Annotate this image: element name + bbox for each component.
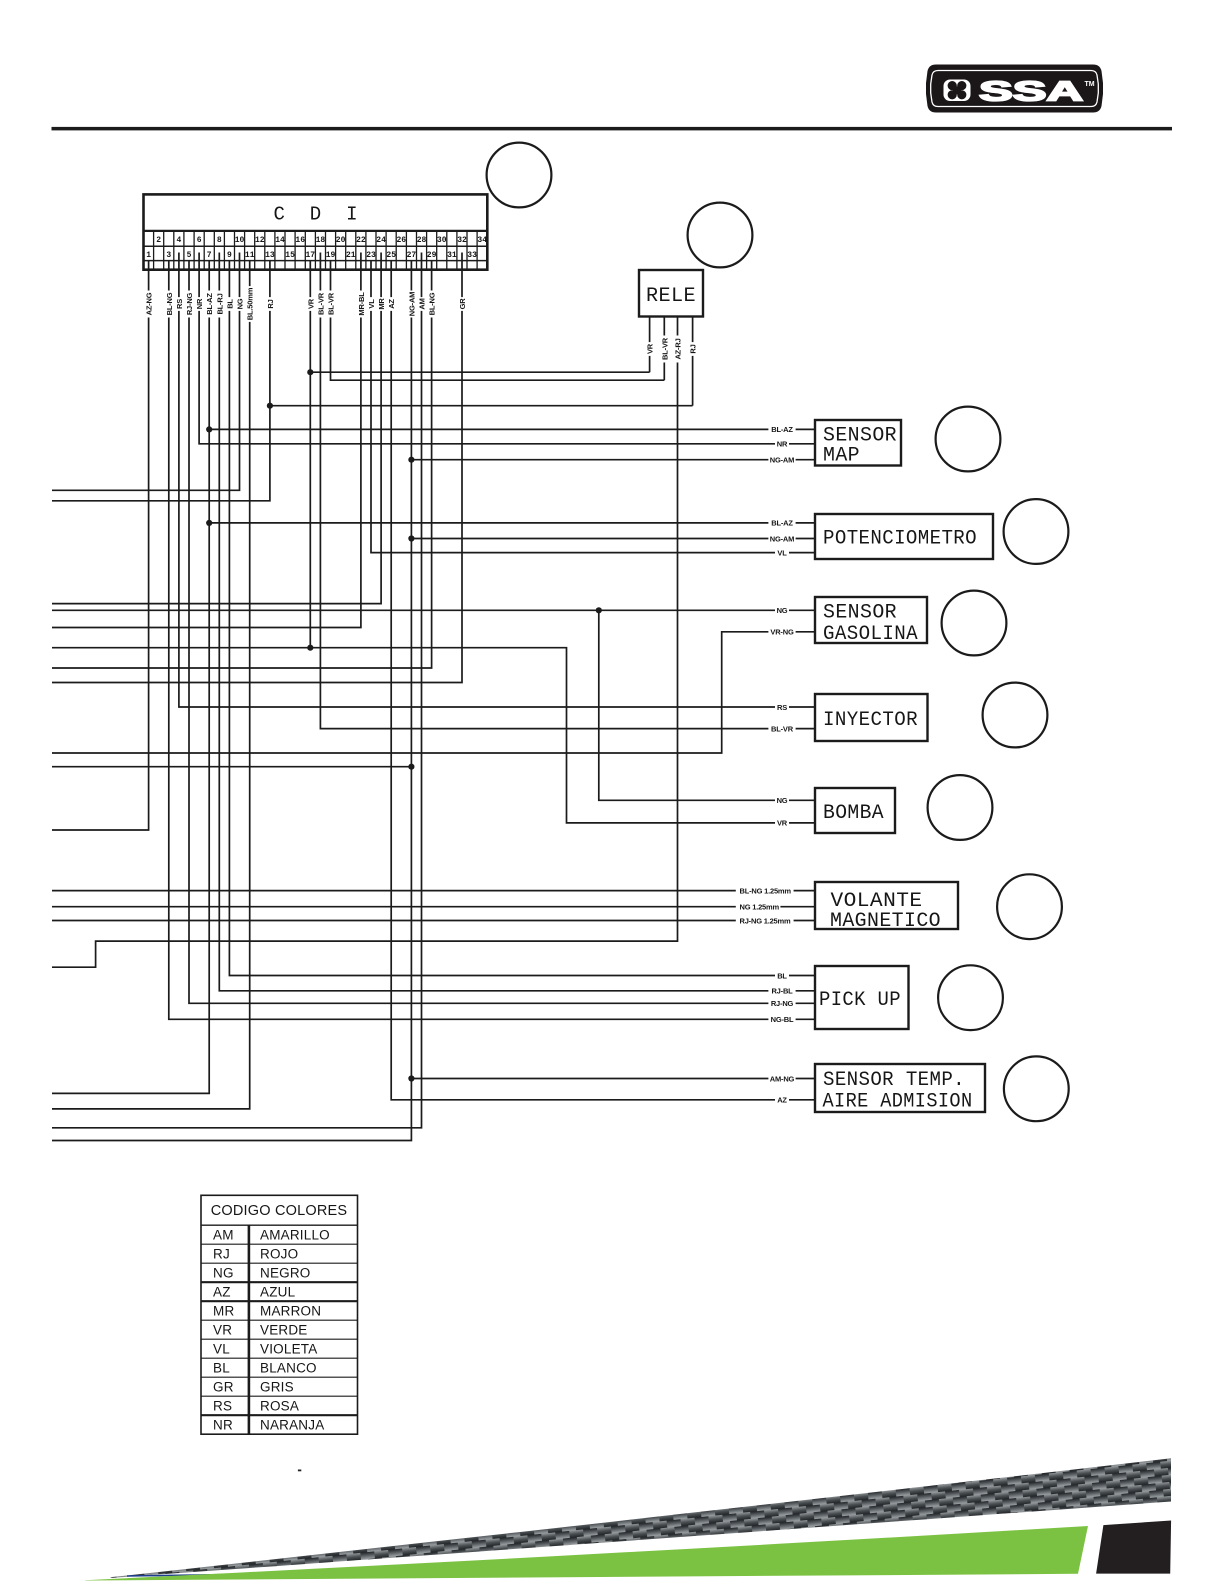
wire pin 18 BL-VR to INYECTOR BL-VR: [320, 253, 815, 729]
svg-text:16: 16: [295, 236, 305, 245]
svg-text:MAGNETICO: MAGNETICO: [830, 910, 941, 933]
svg-text:ROSA: ROSA: [260, 1398, 299, 1413]
wiring harness: [52, 253, 815, 1141]
wire pin 8 RJ-BL to PICK UP RJ-BL: [219, 253, 815, 991]
wire NG branch to BOMBA NG: [599, 610, 815, 800]
wire VR-NG to SENSOR GASOLINA: [52, 632, 815, 753]
wire branch pin 27 to POTENCIOMETRO NG-AM: [411, 538, 815, 540]
wire pin 27 NG-AM vertical to left harness: [52, 261, 411, 1141]
svg-text:4: 4: [176, 236, 181, 245]
svg-text:30: 30: [437, 236, 447, 245]
label AM-NG: [768, 1074, 795, 1084]
svg-text:NG-AM: NG-AM: [770, 534, 794, 543]
green wedge: [85, 1526, 1088, 1581]
label NG 1.25mm: [736, 902, 781, 912]
label NR pin 6: [195, 297, 205, 311]
svg-text:25: 25: [386, 251, 396, 260]
sensor box POTENCIOMETRO: [815, 514, 993, 559]
wire pin 23 VL to POTENCIOMETRO VL: [371, 261, 815, 553]
svg-text:MR: MR: [377, 298, 386, 310]
pump box BOMBA: [815, 788, 895, 833]
svg-text:NEGRO: NEGRO: [260, 1265, 311, 1280]
label NG: [775, 796, 789, 806]
label RJ-NG 1.25mm: [736, 916, 794, 926]
svg-text:NG: NG: [777, 606, 788, 615]
label BL-AZ: [768, 425, 795, 435]
label AM pin 28: [417, 297, 427, 311]
svg-text:5: 5: [187, 251, 192, 260]
svg-text:RJ-NG: RJ-NG: [771, 999, 794, 1008]
label NG: [775, 606, 789, 616]
svg-text:PICK UP: PICK UP: [819, 989, 901, 1012]
svg-text:23: 23: [366, 251, 376, 260]
svg-text:RJ: RJ: [689, 344, 698, 353]
svg-text:BL-VR: BL-VR: [660, 337, 669, 360]
wire RELE BL-VR drop: [663, 317, 665, 381]
svg-text:20: 20: [336, 236, 346, 245]
svg-text:RJ: RJ: [213, 1246, 230, 1261]
relay RELE: [639, 270, 703, 317]
sensor box SENSOR TEMP. AIRE ADMISION: [815, 1064, 985, 1114]
label RJ-NG pin 5: [184, 291, 194, 318]
wire pin 22 MR-BL to left harness: [52, 253, 361, 628]
svg-text:NR: NR: [213, 1417, 233, 1432]
svg-text:CODIGO COLORES: CODIGO COLORES: [211, 1203, 348, 1219]
label RJ RELE: [688, 342, 698, 356]
CDI cell dividers: [154, 231, 478, 270]
svg-text:NG: NG: [236, 298, 245, 309]
CDI connector U1: [144, 194, 488, 269]
svg-text:NARANJA: NARANJA: [260, 1417, 324, 1432]
sensor box SENSOR MAP: [815, 420, 901, 468]
svg-text:NG: NG: [777, 796, 788, 805]
svg-text:BL-NG: BL-NG: [165, 292, 174, 315]
sensor box PICK UP: [815, 966, 909, 1029]
label VR: [775, 818, 789, 828]
svg-text:AM-NG: AM-NG: [770, 1074, 795, 1083]
label NG-BL: [768, 1015, 795, 1025]
junction pin17/VR net: [307, 645, 313, 651]
OSSA logo: [926, 65, 1103, 113]
wire RELE VR drop: [649, 317, 651, 373]
wire pin 25 AZ to SENSOR TEMP AZ: [391, 261, 815, 1100]
svg-text:24: 24: [376, 236, 386, 245]
label BL-AZ pin 7: [205, 291, 215, 318]
label MR-BL pin 22: [356, 291, 366, 318]
blue accent line: [127, 1573, 269, 1577]
carbon fibre wedge: [110, 1458, 1171, 1578]
label BL-NG pin 29: [427, 291, 437, 318]
svg-text:BLANCO: BLANCO: [260, 1360, 317, 1375]
svg-text:MR: MR: [213, 1303, 234, 1318]
junction pin27/POT: [408, 535, 414, 541]
svg-text:31: 31: [447, 251, 457, 260]
svg-text:32: 32: [457, 236, 467, 245]
wire branch pin 27 to SENSOR TEMP AM-NG: [411, 1078, 815, 1080]
label BL-VR: [768, 724, 795, 734]
label BL.50mm pin 11: [245, 286, 255, 322]
label BL-VR pin 19: [326, 291, 336, 318]
callout circle BOMBA: [928, 775, 993, 840]
svg-text:RJ: RJ: [266, 299, 275, 308]
black parallelogram: [1096, 1521, 1171, 1574]
svg-text:VR: VR: [777, 819, 788, 828]
svg-text:BL-NG: BL-NG: [428, 292, 437, 315]
svg-text:AMARILLO: AMARILLO: [260, 1227, 330, 1242]
svg-text:TM: TM: [1085, 81, 1095, 88]
callout circle SENSOR GASOLINA: [942, 591, 1007, 656]
horizontal rule under header: [52, 127, 1173, 130]
svg-text:NG-BL: NG-BL: [771, 1015, 794, 1024]
label BL-AZ: [768, 518, 795, 528]
svg-text:GR: GR: [458, 298, 467, 310]
CDI odd pin numbers: [146, 251, 477, 260]
svg-text:BL-AZ: BL-AZ: [771, 425, 793, 434]
wire pin 28 AM to left harness: [52, 253, 422, 1128]
label RJ pin 13: [265, 297, 275, 311]
label NG-AM: [768, 455, 795, 465]
svg-text:1: 1: [146, 251, 151, 260]
wire VR net to BOMBA VR: [52, 648, 815, 823]
wire pin 10 NG to left harness: [52, 253, 240, 491]
label VR RELE: [645, 342, 655, 356]
label BL: [775, 971, 789, 981]
wire pin 29 BL-NG to left harness: [52, 261, 432, 668]
svg-text:SSA: SSA: [979, 76, 1083, 107]
wire pin 11 BL.50mm to left harness: [52, 261, 250, 1109]
svg-text:AZ-RJ: AZ-RJ: [674, 338, 683, 359]
svg-text:11: 11: [245, 251, 255, 260]
svg-text:GRIS: GRIS: [260, 1379, 294, 1394]
wire branch pin 7 to POTENCIOMETRO BL-AZ: [209, 522, 815, 524]
component wire colour labels: [768, 425, 795, 1105]
svg-text:3: 3: [166, 251, 171, 260]
wire pin 24 MR to left harness: [52, 253, 381, 604]
svg-text:POTENCIOMETRO: POTENCIOMETRO: [823, 528, 977, 551]
svg-text:12: 12: [255, 236, 265, 245]
label BL-VR RELE: [660, 336, 670, 363]
svg-text:7: 7: [207, 251, 212, 260]
svg-text:NR: NR: [777, 440, 788, 449]
svg-text:BL-NG 1.25mm: BL-NG 1.25mm: [740, 886, 792, 895]
actuator box INYECTOR: [815, 694, 928, 741]
sensor box SENSOR GASOLINA: [815, 597, 927, 646]
label RS: [775, 702, 789, 712]
label BL-RJ pin 8: [215, 291, 225, 318]
svg-text:22: 22: [356, 236, 366, 245]
svg-text:MAP: MAP: [823, 445, 860, 468]
svg-text:NR: NR: [195, 298, 204, 309]
callout circle POTENCIOMETRO: [1004, 499, 1069, 564]
svg-text:SENSOR TEMP.: SENSOR TEMP.: [823, 1069, 965, 1092]
callout circle INYECTOR: [983, 683, 1048, 748]
callout circle near RELE: [688, 203, 753, 268]
svg-text:VERDE: VERDE: [260, 1322, 308, 1337]
svg-text:AZ-NG: AZ-NG: [145, 292, 154, 315]
junction pin7/POT: [206, 520, 212, 526]
wire branch pin 27 to SENSOR MAP NG-AM: [411, 459, 815, 461]
svg-text:RJ-NG 1.25mm: RJ-NG 1.25mm: [740, 916, 791, 925]
label BL-NG pin 3: [164, 291, 174, 318]
svg-text:VIOLETA: VIOLETA: [260, 1341, 317, 1356]
wire VOLANTE NG 1.25mm: [52, 906, 815, 908]
junction pin27/SENSOR TEMP: [408, 1075, 414, 1081]
svg-text:NG 1.25mm: NG 1.25mm: [740, 903, 780, 912]
label VL pin 23: [366, 297, 376, 311]
svg-text:VR: VR: [213, 1322, 232, 1337]
wire RELE RJ drop: [692, 317, 694, 406]
label BL-VR pin 18: [316, 291, 326, 318]
svg-text:BL-VR: BL-VR: [771, 724, 794, 733]
svg-text:18: 18: [316, 236, 326, 245]
junction dots: [206, 369, 602, 1082]
svg-text:RJ-NG: RJ-NG: [185, 292, 194, 315]
label VR-NG: [768, 627, 795, 637]
generator box VOLANTE MAGNETICO: [815, 882, 958, 933]
svg-text:BOMBA: BOMBA: [823, 802, 884, 825]
wire pin 3 BL-NG to PICK UP NG-BL: [169, 261, 815, 1019]
svg-text:INYECTOR: INYECTOR: [823, 709, 918, 732]
svg-text:RELE: RELE: [646, 285, 696, 308]
junction pin7/MAP: [206, 426, 212, 432]
svg-text:33: 33: [467, 251, 477, 260]
CDI wire colour labels: [144, 286, 467, 322]
label VL: [775, 548, 789, 558]
callout circle SENSOR MAP: [936, 407, 1001, 472]
label RS pin 4: [174, 297, 184, 311]
wire pin 13 RJ vertical to left harness: [52, 261, 270, 501]
svg-text:NG: NG: [213, 1265, 234, 1280]
svg-text:BL-VR: BL-VR: [327, 292, 336, 315]
svg-text:10: 10: [235, 236, 245, 245]
svg-text:29: 29: [427, 251, 437, 260]
label NG-AM pin 27: [407, 291, 417, 318]
label GR pin 32: [457, 297, 467, 311]
svg-text:AZ: AZ: [387, 299, 396, 309]
RELE wire colour labels: [645, 336, 698, 363]
svg-text:GR: GR: [213, 1379, 234, 1394]
svg-text:VR-NG: VR-NG: [770, 628, 794, 637]
wire RELE AZ-RJ to left harness: [52, 317, 678, 968]
svg-text:34: 34: [477, 236, 487, 245]
wire NG net to SENSOR GASOLINA NG: [52, 609, 815, 611]
wire NG-AM left harness line: [52, 766, 411, 768]
svg-text:17: 17: [305, 251, 315, 260]
svg-text:BL: BL: [777, 971, 787, 980]
label AZ: [775, 1095, 789, 1105]
junction pin27/harness: [408, 764, 414, 770]
svg-text:BL: BL: [225, 299, 234, 309]
junction pin17/RELE VR: [307, 369, 313, 375]
svg-text:MR-BL: MR-BL: [357, 292, 366, 316]
svg-text:RJ-BL: RJ-BL: [771, 987, 793, 996]
callout circle VOLANTE MAGNETICO: [997, 874, 1062, 939]
svg-text:BL-AZ: BL-AZ: [205, 293, 214, 315]
svg-text:GASOLINA: GASOLINA: [823, 623, 918, 646]
svg-text:13: 13: [265, 251, 275, 260]
wire pin 9 BL to PICK UP BL: [229, 261, 815, 976]
wire pin 6 NR to SENSOR MAP NR: [199, 253, 815, 444]
svg-text:VL: VL: [213, 1341, 230, 1356]
junction pin13/RELE RJ: [267, 403, 273, 409]
svg-text:6: 6: [197, 236, 202, 245]
svg-text:RS: RS: [777, 703, 787, 712]
wire pin 7 BL-AZ vertical to left harness: [52, 261, 209, 1093]
svg-text:MARRON: MARRON: [260, 1303, 321, 1318]
label NG pin 10: [235, 297, 245, 311]
svg-text:RS: RS: [175, 299, 184, 309]
wire VOLANTE BL-NG 1.25mm: [52, 890, 815, 892]
svg-text:BL-VR: BL-VR: [316, 292, 325, 315]
svg-text:AZUL: AZUL: [260, 1284, 296, 1299]
svg-text:19: 19: [326, 251, 336, 260]
label AZ-RJ RELE: [673, 336, 683, 363]
wire pin 17 VR vertical: [309, 261, 311, 648]
svg-text:26: 26: [396, 236, 406, 245]
wire pin 19 BL-VR to RELE BL-VR: [331, 261, 665, 380]
svg-text:NG-AM: NG-AM: [770, 456, 794, 465]
svg-text:15: 15: [285, 251, 295, 260]
label RJ-NG: [768, 999, 795, 1009]
svg-text:27: 27: [407, 251, 417, 260]
label AZ-NG pin 1: [144, 291, 154, 318]
callout circle SENSOR TEMP: [1004, 1056, 1069, 1121]
label NR: [775, 439, 789, 449]
label AZ pin 25: [387, 297, 397, 311]
svg-text:BL-AZ: BL-AZ: [771, 519, 793, 528]
svg-text:BL.50mm: BL.50mm: [246, 287, 255, 320]
svg-text:9: 9: [227, 251, 232, 260]
svg-text:VR: VR: [306, 298, 315, 309]
svg-text:AZ: AZ: [213, 1284, 231, 1299]
svg-text:BL-RJ: BL-RJ: [215, 293, 224, 314]
svg-text:VR: VR: [646, 343, 655, 354]
svg-text:28: 28: [417, 236, 427, 245]
label BL-NG 1.25mm: [736, 886, 794, 896]
svg-text:21: 21: [346, 251, 356, 260]
wire pin 17 to RELE VR horizontal: [310, 371, 649, 373]
svg-text:AZ: AZ: [777, 1096, 787, 1105]
svg-text:NG-AM: NG-AM: [407, 292, 416, 316]
svg-text:AM: AM: [418, 298, 427, 309]
VOLANTE wire colour labels: [736, 886, 794, 926]
svg-text:AM: AM: [213, 1227, 234, 1242]
svg-text:8: 8: [217, 236, 222, 245]
stray dash mark: [298, 1470, 301, 1472]
svg-text:VL: VL: [777, 548, 787, 557]
wire pin 4 RS to INYECTOR RS: [179, 253, 815, 708]
junction NG net/BOMBA: [596, 607, 602, 613]
label BL pin 9: [225, 297, 235, 311]
callout circle near CDI: [487, 143, 552, 208]
svg-text:VL: VL: [367, 299, 376, 309]
callout circle PICK UP: [938, 965, 1003, 1030]
svg-text:14: 14: [275, 236, 285, 245]
colour code table CODIGO COLORES: [201, 1195, 358, 1434]
junction pin27/MAP: [408, 457, 414, 463]
svg-text:AIRE ADMISION: AIRE ADMISION: [823, 1091, 973, 1114]
wire pin 32 GR to left harness: [52, 253, 462, 683]
wire branch pin 7 to SENSOR MAP BL-AZ: [209, 428, 815, 430]
svg-text:ROJO: ROJO: [260, 1246, 298, 1261]
label VR pin 17: [306, 297, 316, 311]
svg-text:2: 2: [156, 236, 161, 245]
wire pin 13 to RELE RJ horizontal: [270, 405, 693, 407]
svg-text:RS: RS: [213, 1398, 232, 1413]
CDI even pin numbers: [156, 236, 487, 245]
svg-text:SENSOR: SENSOR: [823, 602, 897, 625]
label RJ-BL: [768, 986, 795, 996]
label NG-AM: [768, 534, 795, 544]
wire pin 1 AZ-NG to left harness: [52, 261, 149, 830]
CDI row lines: [144, 230, 488, 232]
label MR pin 24: [377, 297, 387, 311]
svg-text:BL: BL: [213, 1360, 230, 1375]
wire pin 5 RJ-NG to PICK UP RJ-NG: [189, 261, 815, 1003]
wire VOLANTE RJ-NG 1.25mm: [52, 920, 815, 922]
